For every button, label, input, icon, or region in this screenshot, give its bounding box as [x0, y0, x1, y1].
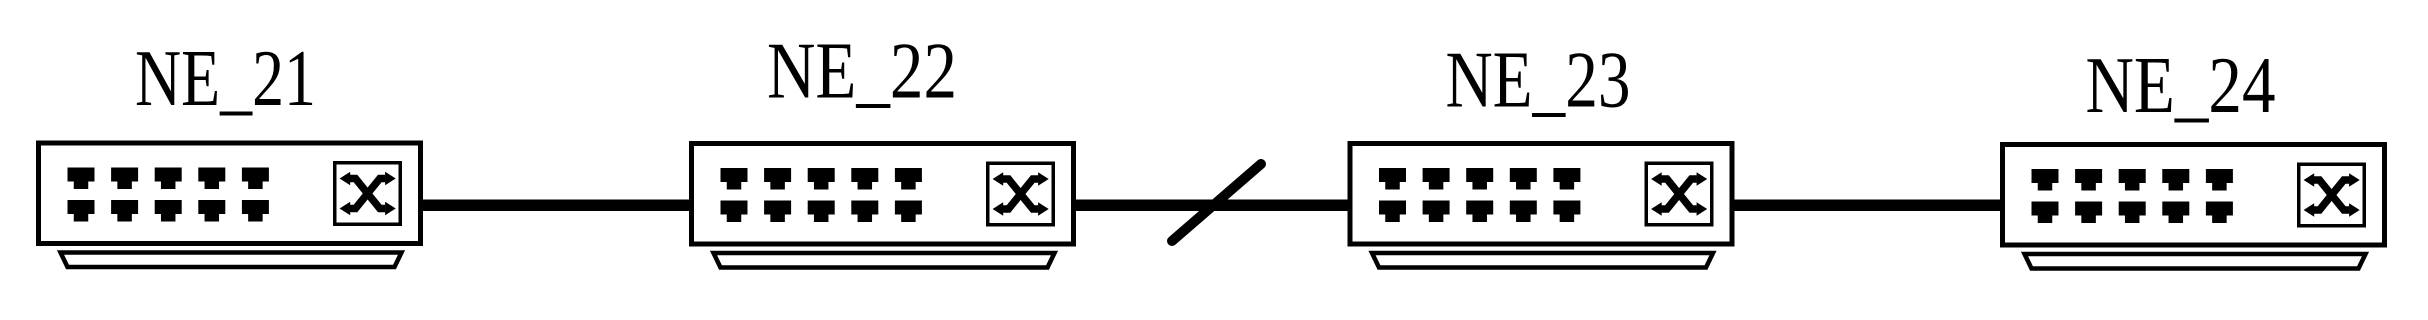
broken-link slash on NE_22-NE_23 wire	[1172, 164, 1261, 241]
NE_21 switch-fabric icon box	[335, 163, 401, 225]
NE_24 port row1 #5	[2206, 169, 2233, 191]
NE_24 chassis	[2003, 145, 2385, 246]
NE_23 port row1 #1	[1379, 168, 1406, 190]
NE_23 chassis	[1350, 144, 1732, 245]
NE_21 port row1 #4	[198, 168, 225, 190]
network element NE_23	[1350, 144, 1732, 268]
NE_21 port row2 #2	[111, 200, 138, 222]
wire link NE_23 to NE_24	[1730, 200, 2003, 212]
NE_22 chassis	[692, 144, 1074, 245]
NE_22 port row1 #1	[721, 168, 748, 190]
NE_23 base stand	[1372, 253, 1713, 268]
NE_21 chassis	[39, 143, 421, 244]
NE_22 crossed-arrows icon	[1003, 179, 1038, 209]
NE_24 port row2 #5	[2206, 202, 2233, 224]
NE_22 port row2 #3	[808, 201, 835, 223]
NE_21 port row1 #5	[242, 168, 269, 190]
NE_22 base stand	[714, 253, 1055, 268]
NE_21 port row1 #2	[111, 168, 138, 190]
svg-text:NE_23: NE_23	[1446, 35, 1631, 125]
NE_21 port row1 #3	[155, 168, 182, 190]
svg-text:NE_22: NE_22	[767, 26, 957, 116]
NE_21 base stand	[61, 253, 402, 268]
NE_23 port row2 #3	[1466, 201, 1493, 223]
NE_23 port row2 #2	[1423, 201, 1450, 223]
NE_24 port row2 #1	[2032, 202, 2059, 224]
NE_22 port row1 #5	[895, 168, 922, 190]
NE_24 port row1 #3	[2119, 169, 2146, 191]
NE_23 port row1 #4	[1510, 168, 1537, 190]
NE_22 port row1 #3	[808, 168, 835, 190]
NE_24 port row1 #2	[2075, 169, 2102, 191]
NE_22 port row2 #2	[764, 201, 791, 223]
NE_22 port row1 #2	[764, 168, 791, 190]
NE_24 port row2 #4	[2162, 202, 2189, 224]
svg-text:NE_21: NE_21	[135, 33, 316, 123]
NE_23 port row2 #4	[1510, 201, 1537, 223]
NE_22 port row2 #1	[721, 201, 748, 223]
NE_22 port row1 #4	[851, 168, 878, 190]
NE_23 port row1 #2	[1423, 168, 1450, 190]
NE_24 port row1 #4	[2162, 169, 2189, 191]
NE_22 port row2 #4	[851, 201, 878, 223]
NE_24 port row1 #1	[2032, 169, 2059, 191]
network element NE_22	[692, 144, 1074, 268]
NE_21 port row2 #1	[68, 200, 95, 222]
NE_23 crossed-arrows icon	[1662, 179, 1697, 209]
svg-text:NE_24: NE_24	[2086, 40, 2276, 130]
NE_24 base stand	[2025, 254, 2366, 269]
NE_21 port row2 #3	[155, 200, 182, 222]
NE_21 port row2 #5	[242, 200, 269, 222]
NE_24 port row2 #3	[2119, 202, 2146, 224]
NE_24 switch-fabric icon box	[2299, 164, 2365, 226]
network element NE_21	[39, 143, 421, 267]
wire link NE_22 to NE_23	[1073, 200, 1351, 212]
NE_21 port row1 #1	[68, 168, 95, 190]
NE_24 port row2 #2	[2075, 202, 2102, 224]
wire link NE_21 to NE_22	[420, 200, 692, 212]
network element NE_24	[2003, 145, 2385, 269]
NE_22 port row2 #5	[895, 201, 922, 223]
NE_21 port row2 #4	[198, 200, 225, 222]
NE_23 port row2 #5	[1553, 201, 1580, 223]
NE_23 port row1 #3	[1466, 168, 1493, 190]
NE_22 switch-fabric icon box	[988, 163, 1054, 225]
NE_21 crossed-arrows icon	[350, 179, 385, 209]
NE_23 switch-fabric icon box	[1646, 163, 1712, 225]
NE_23 port row1 #5	[1553, 168, 1580, 190]
NE_23 port row2 #1	[1379, 201, 1406, 223]
NE_24 crossed-arrows icon	[2314, 180, 2349, 210]
